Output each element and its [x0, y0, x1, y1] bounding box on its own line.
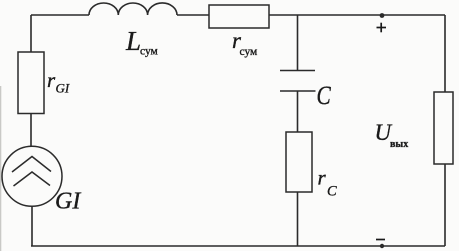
- svg-text:C: C: [317, 82, 332, 110]
- svg-text:GI: GI: [55, 189, 81, 215]
- svg-text:C: C: [327, 184, 337, 200]
- svg-text:r: r: [318, 166, 327, 190]
- svg-text:GI: GI: [56, 81, 70, 96]
- svg-text:сум: сум: [140, 46, 159, 58]
- svg-text:сум: сум: [240, 46, 259, 58]
- svg-text:вых: вых: [390, 139, 408, 150]
- svg-text:L: L: [125, 26, 141, 56]
